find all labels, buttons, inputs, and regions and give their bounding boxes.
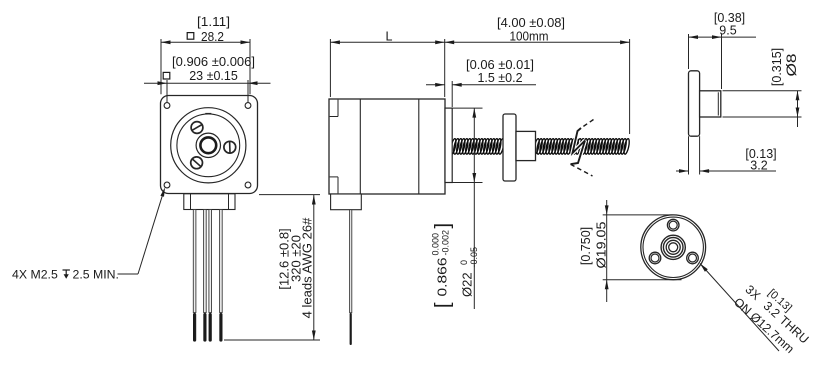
mounting hole M2.5 #3 [164,182,170,188]
nut mounting hole lower-left [649,252,661,264]
nut hub detail side view [700,91,721,117]
svg-text:0.000: 0.000 [431,233,441,256]
svg-text:4X M2.5: 4X M2.5 [12,268,58,282]
svg-text:[0.315]: [0.315] [770,48,784,86]
svg-text:2.5 MIN.: 2.5 MIN. [73,268,119,282]
dimension [1.11] 28.2 square [161,15,250,94]
dimension L motor length [330,30,629,135]
nut flange side view [503,114,516,181]
svg-text:0.866: 0.866 [435,258,450,297]
motor body side view [329,99,445,194]
svg-text:L: L [386,30,393,44]
note 4X M2.5 depth 2.5 MIN with leader [12,187,165,281]
svg-text:Ø8: Ø8 [784,54,799,77]
dimension diameter 8 hub [723,48,802,127]
svg-text:-0.002: -0.002 [441,230,451,256]
nut flange detail side view [689,71,700,136]
lead wire 4 [220,210,223,342]
shaft hub ring [196,133,220,157]
svg-text:[4.00 ±0.08]: [4.00 ±0.08] [497,16,565,30]
svg-text:[0.906 ±0.006]: [0.906 ±0.006] [172,55,255,69]
svg-text:1.5 ±0.2: 1.5 ±0.2 [477,71,522,85]
front pilot boss side view [445,108,452,182]
index notch [205,112,211,114]
rear cover corner tabs [330,100,338,194]
nut front view outer circle [641,215,706,280]
lead wire side view [350,210,352,345]
dimension [4.00 +-0.08] 100mm screw length [497,16,565,44]
slotted screw upper-left [191,122,203,134]
svg-text:[: [ [432,302,454,308]
svg-text:100mm: 100mm [510,30,549,44]
svg-text:Ø22: Ø22 [460,272,475,297]
slotted screw right [224,141,236,153]
dimension [12.6 +-0.8] 320 +-20 lead length [224,195,320,340]
screw break symbol [571,120,594,177]
dimension [0.906 +-0.006] 23 +-0.15 hole spacing [144,55,271,103]
note 3X 3.2 THRU ON diameter 12.7mm with leader [700,264,818,359]
mounting hole M2.5 #2 [245,103,251,109]
svg-text:23 ±0.15: 23 ±0.15 [189,69,238,83]
nut mounting hole top [667,219,679,231]
dimension [0.13] 3.2 flange thickness [676,136,777,174]
svg-text:0: 0 [459,260,469,265]
svg-text:[1.11]: [1.11] [197,15,230,29]
dimension diameter 22 boss [452,108,482,309]
terminal block below flange [184,194,235,210]
slotted screw lower-left [191,157,203,169]
lead wire 3 [209,210,212,342]
nut hub side view [516,131,536,160]
svg-text:]: ] [432,223,454,229]
dimension [0.38] 9.5 nut length [689,11,757,89]
mounting hole M2.5 #4 [245,182,251,188]
lead wire 2 [204,210,207,342]
svg-text:-0.05: -0.05 [469,247,479,268]
svg-text:Ø19.05: Ø19.05 [593,222,608,269]
lead wire 1 [193,210,196,342]
motor front flange (square) [161,96,258,194]
dimension [0.750] diameter 19.05 [579,200,682,302]
pilot boss circle inner [177,114,240,177]
mounting hole M2.5 #1 [164,103,170,109]
svg-text:3.2: 3.2 [750,158,767,172]
svg-text:[0.750]: [0.750] [579,227,593,265]
shaft bore [200,137,216,153]
nut centre hub circles [661,235,685,259]
lead screw thread [450,138,631,154]
svg-text:4 leads AWG 26#: 4 leads AWG 26# [299,217,314,318]
diameter 22 tolerance text [431,223,480,308]
dimension [0.06 +-0.01] 1.5 +-0.2 boss height [426,58,536,107]
pilot boss circle outer [171,108,246,183]
nut mounting hole lower-right [687,252,699,264]
terminal box side view [331,194,362,210]
